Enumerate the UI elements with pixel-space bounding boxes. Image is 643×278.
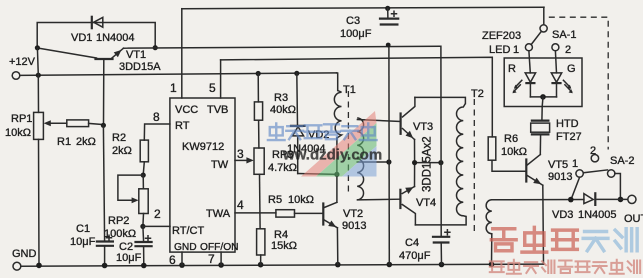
svg-text:3: 3	[237, 147, 244, 161]
node SA-2 tap junction	[568, 197, 574, 203]
node +12V input terminal	[9, 56, 36, 79]
svg-text:HTD: HTD	[556, 118, 579, 130]
capacitor C1 10uF	[70, 223, 113, 266]
watermark corner cjk placeholder	[490, 227, 640, 273]
wire T2 secondary bottom to ground	[491, 234, 493, 265]
svg-text:C3: C3	[346, 15, 360, 27]
diode VD3 1N4005	[552, 193, 628, 221]
svg-text:4: 4	[237, 198, 244, 212]
node R3 top junction	[256, 71, 261, 76]
watermark center logo triangle	[301, 111, 377, 177]
wire emitters to supply vertical	[415, 162, 441, 164]
svg-text:+12V: +12V	[9, 56, 36, 68]
svg-text:FT27: FT27	[556, 131, 582, 143]
transistor VT3	[401, 97, 434, 139]
transistor VT2 9013	[323, 202, 366, 232]
svg-text:GND: GND	[174, 242, 197, 253]
wire VD1 top loop	[37, 23, 155, 48]
svg-text:LED: LED	[489, 44, 510, 56]
buzzer HTD FT27	[531, 107, 582, 144]
node VT1 collector junction	[35, 45, 40, 50]
node R1 VT1-base C1 junction	[101, 123, 106, 128]
node GND terminal	[12, 248, 37, 270]
svg-text:3DD15Ax2: 3DD15Ax2	[422, 136, 434, 192]
svg-text:9013: 9013	[342, 220, 366, 232]
svg-text:VT5: VT5	[548, 159, 568, 171]
svg-text:VD1: VD1	[71, 32, 92, 44]
wire VT3 collector to T2 primary top	[415, 97, 466, 103]
svg-text:100kΩ: 100kΩ	[104, 228, 136, 240]
wire T1 secondary top to VT3 base	[357, 120, 400, 122]
capacitor C2 10uF	[116, 226, 152, 265]
resistor R5 10k	[268, 194, 322, 217]
wire ganged switch linkage dashed	[549, 17, 608, 149]
transformer T1	[334, 84, 363, 200]
svg-text:SA-1: SA-1	[552, 29, 576, 41]
svg-text:ZEF203: ZEF203	[482, 30, 521, 42]
wire VT2 collector to T1 primary bottom	[336, 138, 338, 202]
svg-text:R1: R1	[57, 136, 71, 148]
wire T1 center tap	[357, 161, 389, 163]
wire ground rail	[21, 264, 544, 266]
wire VT4 collector to T2 primary bottom	[415, 217, 466, 225]
svg-text:T1: T1	[343, 84, 356, 96]
svg-text:RP2: RP2	[108, 215, 129, 227]
watermark center cjk placeholder	[268, 123, 377, 140]
wire VT2 emitter to ground	[336, 228, 338, 265]
svg-text:R3: R3	[274, 92, 288, 104]
switch SA-2	[572, 145, 634, 177]
node C3 rail junctions	[385, 6, 390, 11]
node center tap junction	[386, 159, 391, 164]
resistor R1 2k	[57, 120, 103, 148]
wire RT/CT pin2 lead	[143, 225, 170, 227]
svg-text:VCC: VCC	[175, 104, 198, 116]
svg-text:10μF: 10μF	[70, 236, 96, 248]
svg-text:6: 6	[169, 253, 176, 267]
wire RP1 bottom to ground	[38, 139, 41, 265]
svg-text:1: 1	[170, 81, 177, 95]
node VD1 cathode junction	[153, 45, 158, 50]
wire T1 primary top feed	[337, 73, 338, 91]
node OUT terminal	[624, 195, 643, 225]
svg-text:5: 5	[209, 81, 216, 95]
wire +12V rail	[20, 73, 337, 76]
LED G green element	[551, 51, 573, 97]
wire pin7 OFF/ON lead	[220, 252, 222, 265]
wire TVB drive line	[221, 57, 493, 137]
svg-text:100μF: 100μF	[340, 28, 372, 40]
wire LED common to HTD	[541, 97, 544, 107]
svg-text:1: 1	[572, 158, 578, 170]
svg-text:G: G	[567, 63, 576, 75]
node ground rail dots	[36, 262, 494, 269]
node +12V RP1 junction	[36, 73, 41, 78]
svg-text:VT3: VT3	[413, 121, 433, 133]
svg-text:ww.dzdiy.com: ww.dzdiy.com	[282, 147, 382, 164]
svg-text:TWA: TWA	[206, 208, 231, 220]
node IC pin numbers	[153, 81, 244, 267]
svg-text:9013: 9013	[548, 171, 572, 183]
svg-text:3DD15A: 3DD15A	[119, 61, 161, 73]
svg-text:R2: R2	[112, 132, 126, 144]
node VD2 VT2-collector junction	[334, 172, 339, 177]
wire VT5 emitter to ground	[542, 185, 545, 264]
LED R red element	[512, 51, 535, 97]
node LED common junction	[540, 94, 546, 100]
wire pin6 GND lead	[181, 252, 183, 265]
svg-text:7: 7	[208, 252, 215, 266]
svg-text:C4: C4	[405, 237, 419, 249]
svg-text:RP1: RP1	[11, 113, 32, 125]
wire pin1 VCC to top rail	[181, 9, 183, 98]
svg-text:VT2: VT2	[343, 208, 363, 220]
svg-text:2: 2	[590, 145, 596, 157]
resistor R6 10k	[488, 133, 527, 171]
svg-text:10kΩ: 10kΩ	[501, 146, 527, 158]
potentiometer RP1 10k	[5, 112, 67, 139]
svg-text:TW: TW	[211, 159, 229, 171]
wire VT4 emitter rise	[414, 163, 416, 187]
wire supply vertical to C4	[440, 46, 442, 236]
wire SA-2 common drop	[615, 174, 621, 200]
node VD3 cathode junction	[618, 197, 624, 203]
LED assembly ZEF203	[482, 30, 582, 107]
potentiometer RP3 4.7k	[254, 148, 297, 174]
svg-text:2: 2	[154, 207, 161, 221]
capacitor C4 470uF	[399, 230, 450, 265]
svg-text:8: 8	[153, 110, 160, 124]
svg-text:1N4004: 1N4004	[96, 32, 135, 44]
wire center tap ground drop	[388, 45, 390, 265]
op-amp U1 KW9712 IC box	[170, 98, 239, 253]
resistor R4 15k	[257, 229, 297, 265]
wire RP3 to R4	[259, 174, 262, 229]
svg-text:10kΩ: 10kΩ	[288, 194, 314, 206]
transformer T2	[456, 88, 491, 234]
wire VT5 collector to HTD	[539, 134, 541, 154]
svg-text:C1: C1	[76, 223, 90, 235]
transistor VT5 9013	[526, 155, 572, 186]
wire SA-2 contact1 drop	[571, 177, 580, 199]
potentiometer RP2 100k	[104, 175, 148, 240]
node emitter rail dots	[412, 160, 417, 165]
svg-text:RT: RT	[175, 120, 190, 132]
svg-text:10kΩ: 10kΩ	[5, 127, 31, 139]
diode VD1 1N4004	[71, 17, 135, 44]
wire LED common cathode line	[530, 96, 556, 98]
svg-text:R6: R6	[504, 133, 518, 145]
capacitor C3 100uF	[340, 8, 398, 40]
svg-text:OFF/ON: OFF/ON	[200, 242, 238, 253]
node R2 RP2 wiper junction	[141, 173, 146, 178]
resistor R2 2k	[112, 132, 148, 175]
wire pin3 TW lead with arrow	[235, 157, 254, 163]
node VD2 top junction	[294, 71, 299, 76]
wire main supply rail	[124, 46, 440, 48]
svg-text:SA-2: SA-2	[610, 155, 634, 167]
svg-text:10μF: 10μF	[116, 252, 142, 264]
svg-text:2kΩ: 2kΩ	[76, 136, 96, 148]
switch SA-1	[513, 7, 576, 56]
diode VD2 1N4004	[287, 73, 337, 174]
wire RT pin8 lead	[144, 124, 170, 140]
svg-text:T2: T2	[471, 88, 484, 100]
svg-text:VT4: VT4	[416, 197, 436, 209]
svg-text:1: 1	[513, 44, 519, 56]
svg-text:KW9712: KW9712	[182, 141, 224, 153]
svg-text:4.7kΩ: 4.7kΩ	[268, 162, 297, 174]
transistor VT4	[400, 187, 436, 225]
svg-text:15kΩ: 15kΩ	[271, 240, 297, 252]
wire pin4 TWA lead	[235, 212, 276, 214]
svg-text:GND: GND	[12, 248, 37, 260]
svg-text:470μF: 470μF	[399, 250, 431, 262]
svg-text:R: R	[508, 63, 516, 75]
svg-text:VT1: VT1	[126, 49, 146, 61]
node RP2 C2 pin2 junction	[140, 224, 145, 229]
svg-text:2kΩ: 2kΩ	[112, 145, 132, 157]
wire pin5 TVB lead	[220, 60, 222, 98]
svg-text:RT/CT: RT/CT	[172, 225, 204, 237]
wire T1 secondary bottom to VT4 base	[357, 198, 399, 201]
svg-text:2: 2	[565, 44, 571, 56]
wire RP1 branch vertical	[37, 48, 38, 113]
svg-text:TVB: TVB	[207, 104, 228, 116]
svg-text:OUT: OUT	[624, 213, 643, 225]
svg-text:R5: R5	[268, 194, 282, 206]
resistor R3 40k	[254, 74, 296, 149]
wire C1 branch	[103, 125, 104, 241]
wire top rail	[182, 7, 544, 9]
transistor VT1 3DD15A	[38, 48, 162, 125]
svg-text:1N4005: 1N4005	[578, 209, 617, 221]
wire output line	[492, 199, 584, 201]
svg-text:VD3: VD3	[552, 209, 573, 221]
svg-text:40kΩ: 40kΩ	[270, 104, 296, 116]
wire VT3 emitter drop	[414, 140, 416, 163]
